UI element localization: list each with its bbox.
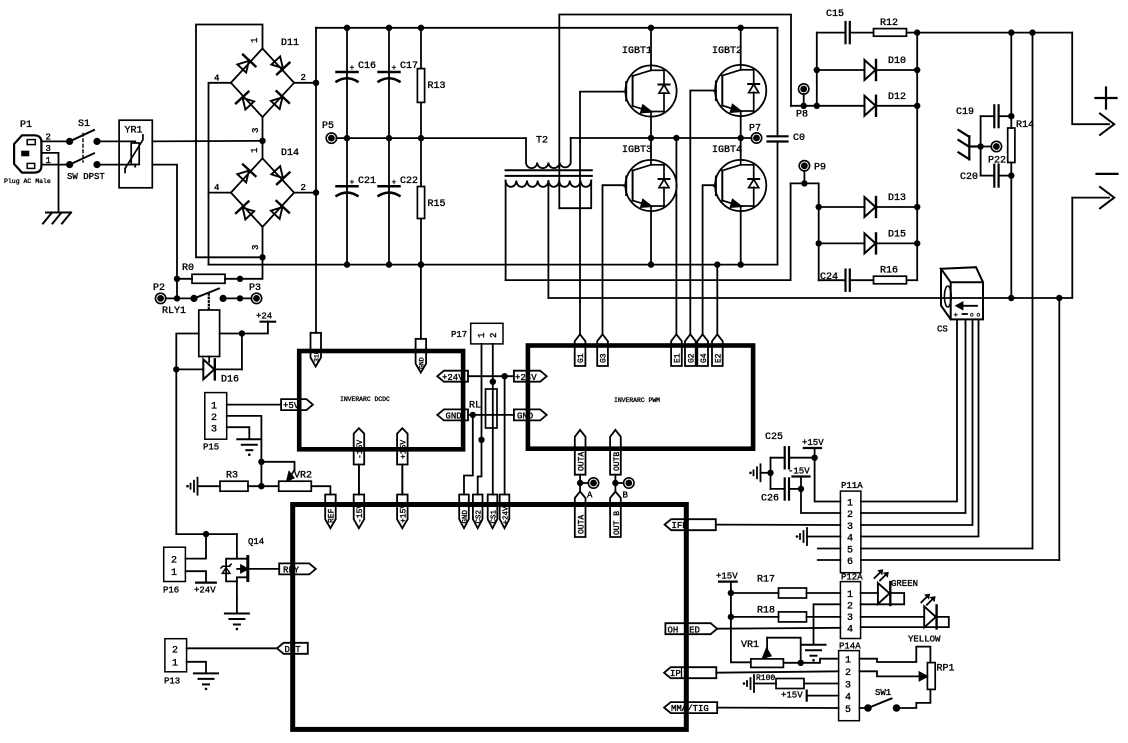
svg-text:3: 3: [251, 128, 261, 133]
svg-text:P5: P5: [322, 121, 334, 132]
wire top plus bus: [316, 27, 778, 29]
wire D14 pin3 down: [262, 227, 264, 257]
svg-text:IGBT2: IGBT2: [712, 46, 742, 57]
junction: [811, 455, 817, 461]
transistor Q14: [221, 534, 279, 598]
net flag OUT B (block top): [610, 492, 622, 538]
svg-text:+15V: +15V: [781, 691, 803, 701]
svg-text:G4: G4: [700, 353, 709, 363]
svg-text:C16: C16: [358, 61, 376, 72]
junction D14.3: [259, 254, 265, 260]
junction D16 left: [173, 366, 179, 372]
wire S1 to YR1 bottom: [97, 164, 119, 166]
junction: [418, 261, 424, 267]
diode D16 (flyback): [176, 334, 242, 386]
junction: [977, 143, 983, 149]
junction: [914, 240, 920, 246]
header P17: [451, 323, 503, 344]
svg-text:+: +: [350, 179, 355, 188]
connector P12A: [840, 573, 863, 639]
svg-text:P9: P9: [814, 163, 826, 174]
wire +15V column: [731, 593, 751, 662]
wire left column down to Q14 row: [176, 369, 237, 534]
svg-text:R0: R0: [182, 263, 194, 274]
wire +15V pair: [401, 465, 403, 495]
net flag G3 (PWM top): [597, 334, 608, 366]
svg-text:A: A: [587, 491, 593, 501]
potentiometer VR2: [261, 462, 312, 491]
resistor R17: [731, 575, 841, 599]
wire VR2 to REF flag: [311, 486, 330, 494]
wire P16.2 up to Q14 row: [185, 534, 206, 559]
net flag +15V (DCDC out): [397, 428, 408, 494]
junction: [418, 135, 424, 141]
svg-text:INVERARC DCDC: INVERARC DCDC: [340, 396, 390, 403]
wire +24V flag drop: [504, 376, 506, 494]
wire P13.1 to ground: [187, 662, 206, 674]
svg-text:D16: D16: [221, 375, 239, 386]
wire E2 drop: [716, 265, 718, 335]
net flag E1 (PWM top): [671, 334, 682, 366]
svg-text:2: 2: [301, 183, 306, 193]
wire R0 right to D14.3 node: [240, 257, 263, 279]
wire VR1/RP1 net to P14A.1: [801, 659, 839, 663]
svg-text:1: 1: [845, 656, 851, 667]
junction: [814, 103, 820, 109]
net flag IFB: [665, 519, 716, 531]
svg-text:1: 1: [847, 590, 853, 601]
junction: [239, 330, 245, 336]
power flag +15V (P12A): [716, 572, 738, 594]
wire P13.2 to DET flag: [187, 647, 277, 649]
svg-text:+24: +24: [256, 312, 272, 322]
net flag OH LED: [665, 623, 717, 635]
svg-text:VR1: VR1: [741, 640, 759, 651]
svg-text:G3: G3: [600, 353, 609, 363]
ground (P15.3): [237, 439, 261, 456]
junction: [490, 379, 496, 385]
junction: [914, 67, 920, 73]
block MAIN-CONTROL border: [293, 505, 687, 730]
svg-text:IP: IP: [670, 669, 681, 679]
svg-text:P22: P22: [988, 156, 1006, 167]
svg-text:5: 5: [847, 546, 853, 557]
wire P8 row to D12: [791, 105, 865, 107]
junction: [914, 103, 920, 109]
ground (P13): [194, 673, 218, 690]
net flag G4 (PWM top): [697, 334, 709, 366]
junction: [801, 103, 807, 109]
wire secondary right end loop: [559, 181, 591, 209]
svg-text:+24V: +24V: [503, 506, 511, 525]
svg-text:+15V: +15V: [802, 438, 824, 448]
svg-text:C26: C26: [761, 494, 779, 505]
current sensor CS: [937, 267, 983, 334]
node P7: [749, 124, 762, 144]
node P5: [322, 121, 337, 143]
svg-text:GREEN: GREEN: [891, 579, 918, 589]
wire +15V to P11A.1: [815, 458, 841, 502]
junction: [738, 261, 744, 267]
power flag +24V (P16): [194, 583, 216, 596]
wire secondary left to P9 drop: [506, 183, 791, 280]
chassis ground (P22): [959, 130, 981, 159]
capacitor C20: [960, 165, 1011, 187]
relay coil RLY1: [199, 310, 220, 357]
junction R0 right: [237, 276, 243, 282]
svg-text:2: 2: [172, 646, 178, 657]
svg-text:+15V: +15V: [716, 572, 738, 582]
svg-text:P16: P16: [163, 586, 179, 596]
net flag OUTA (PWM bottom): [575, 430, 587, 492]
svg-text:R14: R14: [1016, 120, 1034, 131]
wire GND net: [468, 414, 514, 416]
net flag +15V (block top): [397, 495, 408, 529]
svg-text:G1: G1: [577, 353, 586, 363]
net flag GND (DCDC side): [437, 409, 468, 421]
wire D11 pin1 loop to D14 pin3 (AC2): [196, 25, 263, 258]
svg-text:GND: GND: [419, 357, 426, 369]
junction: [386, 135, 392, 141]
wire coil left loop: [176, 334, 199, 370]
svg-text:P15: P15: [203, 443, 219, 453]
junction: [816, 240, 822, 246]
wire P16.1 to +24V flag: [185, 571, 206, 582]
capacitor C26: [761, 478, 801, 504]
wire P2 row: [166, 297, 194, 299]
junction: [648, 135, 654, 141]
junction: [1008, 29, 1014, 35]
chassis ground (P1 pin3): [43, 213, 71, 224]
potentiometer VR1: [741, 638, 804, 668]
junction: [418, 25, 424, 31]
svg-text:3: 3: [847, 613, 853, 624]
capacitor C19: [956, 105, 1011, 127]
junction: [470, 412, 476, 418]
net flag -15V (DCDC out): [354, 428, 365, 494]
svg-text:C25: C25: [765, 432, 783, 443]
svg-text:1: 1: [211, 402, 217, 413]
wire gate G4: [703, 185, 716, 334]
wire IGBT2 emitter / IGBT4 collector: [740, 116, 742, 160]
svg-text:CS2: CS2: [476, 510, 484, 524]
wire P17.2 down to CS1 flag: [492, 344, 494, 495]
svg-text:P8: P8: [796, 110, 808, 121]
junction: [714, 261, 720, 267]
wire P12A.2 to ground: [814, 604, 841, 643]
wire mid rail T2 to P7: [571, 137, 752, 139]
svg-text:P11A: P11A: [841, 481, 863, 491]
diode D10: [817, 56, 917, 80]
ground (R100): [743, 675, 776, 692]
wire plus column x=316 (bus to DCDC flag): [315, 28, 317, 333]
wire S1 to YR1 top: [97, 140, 119, 142]
svg-text:+: +: [392, 179, 397, 188]
svg-text:C19: C19: [956, 107, 974, 118]
wire P11A.6 sense: [861, 559, 1059, 561]
net flag GND (block top): [459, 495, 470, 529]
junction: [673, 135, 679, 141]
svg-text:OUTA: OUTA: [578, 452, 587, 471]
wire P9 row: [791, 183, 819, 280]
junction: [801, 180, 807, 186]
svg-text:Plug AC Male: Plug AC Male: [4, 178, 51, 185]
wire CS pin2: [861, 319, 966, 513]
svg-text:IGBT4: IGBT4: [712, 145, 742, 156]
svg-text:6: 6: [847, 557, 853, 568]
resistor R12: [874, 18, 918, 36]
net flag RLY: [279, 563, 316, 575]
T2 primary winding: [526, 138, 571, 168]
svg-text:SW1: SW1: [875, 688, 891, 698]
svg-text:E2: E2: [714, 353, 723, 363]
junction: [1008, 172, 1014, 178]
net flag OUTB (PWM bottom): [610, 430, 622, 492]
wire +24V net: [468, 375, 514, 377]
svg-text:D10: D10: [888, 56, 906, 67]
wire coil right to +24: [220, 322, 268, 334]
svg-text:P17: P17: [451, 330, 467, 340]
svg-text:P7: P7: [749, 124, 761, 135]
power flag +15V (C25): [802, 438, 824, 458]
junction: [237, 295, 243, 301]
svg-text:2: 2: [847, 602, 853, 613]
net flag IP: [664, 667, 716, 679]
wire secondary center tap to CS bus: [547, 181, 549, 298]
net flag GND2 (DCDC return): [416, 339, 427, 373]
resistor R0: [177, 263, 240, 283]
svg-text:YR1: YR1: [125, 126, 143, 137]
svg-text:D15: D15: [888, 230, 906, 241]
output terminal plus: [1072, 33, 1116, 135]
net flag +5V: [281, 399, 313, 411]
wire IGBT4 emitter: [740, 211, 742, 265]
svg-text:C21: C21: [358, 176, 376, 187]
power flag -15V (C26): [788, 467, 810, 489]
svg-text:R17: R17: [757, 575, 775, 586]
junction: [258, 483, 264, 489]
node B: [612, 478, 634, 501]
capacitor C17: [379, 28, 419, 138]
wire IGBT1 emitter / IGBT3 collector: [650, 117, 652, 160]
ground (Q14): [225, 599, 249, 631]
relay contact RLY1: [162, 289, 227, 318]
net flag CS2 (block top): [473, 495, 484, 529]
svg-text:T2: T2: [536, 136, 548, 147]
junction: [1008, 113, 1014, 119]
wire D14 pin2: [294, 192, 316, 194]
wire CS pin3: [861, 319, 973, 525]
net flag G2 (PWM top): [685, 334, 697, 366]
diode D12: [865, 92, 918, 116]
wire P8 feed (sec right) up over to P8: [559, 15, 791, 209]
junction: [313, 189, 319, 195]
net flag E2 (PWM top): [712, 334, 723, 366]
net flag DET: [277, 643, 308, 655]
resistor R16: [874, 266, 918, 284]
svg-text:C17: C17: [400, 61, 418, 72]
wire P1 pin1 to S1: [41, 164, 69, 166]
resistor RL: [469, 389, 497, 428]
capacitor C22: [379, 138, 419, 265]
block U-DCDC border: [299, 351, 463, 449]
junction: [501, 373, 507, 379]
resistor R14: [1008, 33, 1034, 298]
junction: [386, 261, 392, 267]
junction: [914, 29, 920, 35]
junction: [258, 459, 264, 465]
wire C25/C26 ground link: [770, 458, 772, 489]
svg-text:CS: CS: [937, 325, 948, 335]
potentiometer RP1: [859, 647, 954, 690]
connector P14A: [839, 642, 862, 721]
connector P1 (AC inlet): [4, 120, 51, 185]
LED GREEN: [861, 569, 918, 605]
wire P1 pin3 to earth: [41, 153, 58, 213]
wire E1 drop: [675, 138, 677, 334]
svg-text:1: 1: [250, 148, 260, 153]
capacitor C15: [817, 9, 874, 43]
junction: [313, 80, 319, 86]
resistor R3: [198, 471, 279, 492]
svg-text:2: 2: [489, 333, 499, 338]
net flag OUT A (block top): [575, 492, 587, 538]
svg-text:4: 4: [847, 534, 853, 545]
svg-text:D14: D14: [281, 148, 299, 159]
wire D11 pin3 / D14 pin1 AC node: [262, 117, 264, 158]
wire gate G2: [690, 91, 715, 335]
wire P11A.6 left stub: [818, 559, 841, 561]
svg-text:YELLOW: YELLOW: [908, 635, 941, 645]
svg-text:B: B: [623, 491, 629, 501]
LED YELLOW: [861, 594, 949, 645]
svg-text:P1: P1: [20, 120, 32, 131]
svg-text:IGBT1: IGBT1: [622, 46, 652, 57]
ground (P11A.4): [796, 528, 841, 545]
svg-text:2: 2: [847, 510, 853, 521]
net flag MMA/TIG: [664, 702, 717, 714]
svg-text:Q14: Q14: [248, 537, 264, 547]
wire IFB to P11A.3: [716, 524, 841, 526]
net flag +24V (DCDC side): [437, 371, 468, 383]
svg-text:C24: C24: [820, 272, 838, 283]
net flag REF: [325, 495, 336, 529]
svg-text:OUTA: OUTA: [578, 515, 587, 534]
svg-text:R16: R16: [880, 266, 898, 277]
connector P11A: [840, 481, 863, 573]
wire gate G1: [580, 92, 625, 335]
junction: [344, 261, 350, 267]
junction: [203, 531, 209, 537]
svg-text:SW DPST: SW DPST: [67, 172, 105, 182]
wire minus bus: [209, 264, 778, 266]
wire IGBT3 emitter: [650, 211, 652, 265]
svg-text:1: 1: [172, 659, 178, 670]
svg-text:P12A: P12A: [841, 573, 863, 583]
bridge rectifier D14: [214, 148, 306, 250]
svg-text:R100: R100: [756, 674, 775, 683]
capacitor C0: [768, 28, 806, 265]
svg-text:3: 3: [211, 425, 217, 436]
node P9: [799, 161, 826, 184]
svg-text:3: 3: [847, 522, 853, 533]
T2 core: [506, 169, 592, 171]
svg-text:REF: REF: [328, 508, 337, 523]
svg-text:C15: C15: [826, 9, 844, 20]
svg-text:GND: GND: [517, 412, 533, 422]
svg-text:1: 1: [477, 333, 487, 338]
svg-text:P13: P13: [164, 677, 180, 687]
svg-text:E1: E1: [674, 353, 683, 363]
svg-text:INVERARC PWM: INVERARC PWM: [614, 397, 660, 404]
ground (C25/C26): [749, 464, 770, 481]
wire snubber column x=816.8: [816, 33, 818, 106]
capacitor C21: [337, 138, 377, 265]
svg-text:G2: G2: [688, 353, 697, 363]
svg-text:RP1: RP1: [937, 664, 955, 675]
junction: [1056, 295, 1062, 301]
node A: [577, 478, 599, 501]
svg-text:1: 1: [847, 499, 853, 510]
svg-text:2: 2: [171, 556, 177, 567]
output terminal minus: [1072, 174, 1117, 208]
svg-text:2: 2: [301, 73, 306, 83]
junction: [728, 590, 734, 596]
junction: [738, 25, 744, 31]
ground (R3): [186, 478, 197, 495]
wire coil bottom stub: [208, 357, 210, 363]
junction R0 left: [174, 276, 180, 282]
wire C19/C20 mid link: [980, 116, 982, 175]
svg-text:R13: R13: [428, 81, 446, 92]
svg-text:RL: RL: [469, 401, 481, 412]
wire IGBT2 collector: [740, 28, 742, 65]
net flag G1 (PWM top): [575, 334, 586, 366]
wire P15.1 to +5V flag: [227, 404, 281, 406]
junction: [1029, 29, 1035, 35]
diode D15: [819, 230, 918, 254]
junction: [344, 25, 350, 31]
svg-text:2: 2: [845, 668, 851, 679]
net flag CS1 (block top): [488, 495, 499, 529]
svg-text:R3: R3: [226, 471, 238, 482]
IGBT3: [622, 145, 677, 211]
svg-text:C22: C22: [400, 176, 418, 187]
svg-text:VR2: VR2: [294, 471, 312, 482]
wire GND flag drop: [464, 415, 473, 495]
svg-text:+24V: +24V: [194, 586, 216, 596]
junction: [648, 261, 654, 267]
wire CS minus bus: [548, 198, 1072, 298]
svg-text:o: o: [977, 312, 981, 319]
svg-text:S1: S1: [78, 119, 90, 130]
svg-text:4: 4: [847, 625, 853, 636]
svg-text:-15V: -15V: [788, 467, 810, 477]
wire -15V to P11A.2: [801, 489, 840, 513]
svg-text:D11: D11: [281, 38, 299, 49]
junction: [1008, 295, 1014, 301]
svg-text:5: 5: [845, 705, 851, 716]
svg-text:3: 3: [251, 245, 261, 250]
svg-text:R15: R15: [428, 199, 446, 210]
svg-text:3: 3: [845, 681, 851, 692]
node P2: [153, 283, 166, 304]
wire GND2 flag to minus bus: [420, 265, 422, 339]
IGBT2: [712, 46, 766, 116]
resistor R13: [417, 28, 445, 138]
connector P13: [164, 639, 187, 687]
svg-text:C20: C20: [960, 172, 978, 183]
